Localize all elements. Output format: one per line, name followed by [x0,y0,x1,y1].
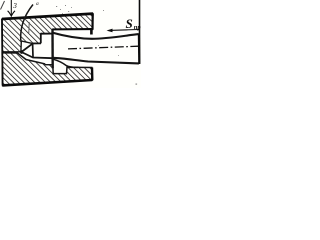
rod tip cone lower face and head bottom [21,52,52,58]
rod tip cone base vertical [32,44,34,57]
label a leader curve [21,5,33,41]
label 3 arrow [10,0,12,16]
die left edge [1,19,4,85]
centerline dash-dot [68,46,139,49]
svg-text:S: S [126,16,133,31]
die upper block top edge (thick) [2,14,93,19]
svg-text:3: 3 [12,2,17,10]
rod bottom edge [53,58,139,64]
rod tip cone upper face and head top [21,43,41,52]
die lower block bottom edge (thick) [2,80,92,85]
rod front face vertical [51,30,54,69]
corner scan mark [1,1,5,10]
die ceiling right-end drop [90,28,93,34]
die upper block (hatched) [2,14,93,52]
svg-text:a: a [36,1,39,7]
die tooth right edge (thick) [40,34,42,44]
scan speckles [56,5,137,85]
die lower block right edge (thick) [91,68,94,81]
bulge (flash) curve in pocket [54,59,79,67]
die ceiling left segment (thick) [41,33,53,35]
rod top edge (sagging neck) [52,33,139,39]
S_pr feed arrow [109,29,140,32]
faint inner curve mark [28,22,30,33]
die upper block right edge [91,14,93,30]
rod fill (white, no stroke) [21,33,139,64]
right border / rod end [139,0,141,64]
die ceiling line (thick) [52,28,91,30]
technical figure: wire/rod drawing die cross-section [0,0,141,88]
apex junction blob [20,50,23,54]
die lower block (hatched) [2,53,92,86]
